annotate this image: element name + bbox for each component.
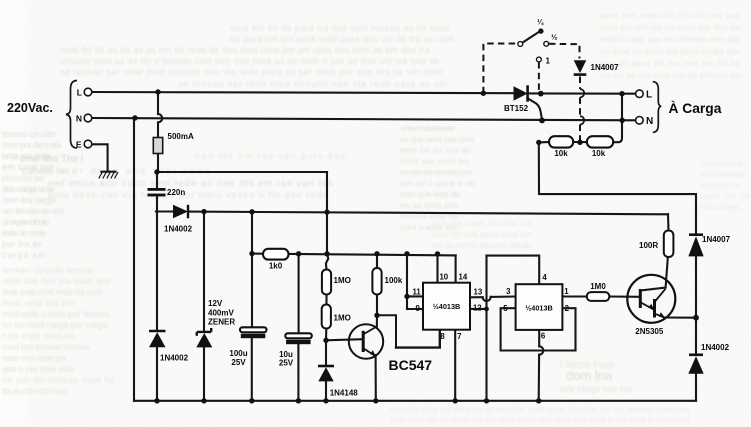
svg-text:mod tra que que nao tensao est: mod tra que que nao tensao este por	[600, 34, 740, 44]
svg-text:3: 3	[506, 287, 511, 296]
svg-text:N: N	[646, 116, 653, 127]
svg-text:no as uma dos: no as uma dos	[400, 200, 458, 210]
svg-text:tensao circuito: tensao circuito	[2, 129, 56, 139]
svg-text:100u: 100u	[229, 349, 247, 358]
svg-text:100k: 100k	[385, 276, 403, 285]
svg-text:nwl emos acir cuito sem rede o: nwl emos acir cuito sem rede os nao dts …	[48, 178, 333, 189]
svg-text:dom lna: dom lna	[566, 368, 613, 383]
svg-text:dos uma no no mod res fio com: dos uma no no mod res fio com mais res u…	[390, 414, 690, 424]
svg-text:1: 1	[564, 287, 569, 296]
svg-text:1k0: 1k0	[269, 262, 283, 271]
svg-text:100R: 100R	[639, 241, 658, 250]
svg-text:½4013B: ½4013B	[433, 302, 461, 311]
svg-text:em em em em com por: em em em em com por	[400, 167, 472, 177]
svg-text:em de o para o se: em de o para o se	[400, 178, 475, 188]
svg-text:ao tra se ser nao em ao tensao: ao tra se ser nao em ao tensao no	[600, 70, 740, 80]
svg-text:1N4002: 1N4002	[701, 343, 730, 352]
svg-text:uma por um de ao para via dos: uma por um de ao para via dos as	[600, 22, 740, 32]
svg-text:½: ½	[551, 33, 557, 42]
svg-text:1N4007: 1N4007	[591, 63, 620, 72]
svg-text:rede dos dos via mais que: rede dos dos via mais que	[2, 276, 111, 286]
svg-text:220Vac.: 220Vac.	[7, 101, 53, 115]
svg-text:mais ser fio: mais ser fio	[700, 191, 750, 201]
svg-text:que o por este este: que o por este este	[2, 364, 74, 374]
svg-text:11: 11	[412, 287, 421, 296]
svg-text:no por fio tensao mod fio: no por fio tensao mod fio	[2, 375, 115, 385]
svg-text:circuito com as as fio o tensa: circuito com as as fio o tensao com dos …	[60, 56, 439, 66]
svg-text:1N4002: 1N4002	[164, 225, 193, 234]
svg-text:13: 13	[474, 287, 483, 296]
svg-text:se tensao ser rede mod circuit: se tensao ser rede mod circuito nao via …	[60, 67, 442, 77]
svg-text:eme sno The l: eme sno The l	[20, 154, 83, 165]
svg-text:½4013B: ½4013B	[525, 303, 553, 312]
svg-text:2N5305: 2N5305	[635, 327, 664, 336]
svg-text:25V: 25V	[279, 359, 294, 368]
svg-text:10k: 10k	[592, 149, 606, 158]
svg-text:ZENER: ZENER	[208, 318, 235, 327]
svg-text:1N4148: 1N4148	[330, 389, 359, 398]
svg-text:uma um dos tensao: uma um dos tensao	[400, 123, 455, 133]
svg-text:¼: ¼	[537, 18, 544, 27]
svg-text:sde carga nao em: sde carga nao em	[560, 384, 632, 394]
svg-text:cont via cont ao: cont via cont ao	[400, 156, 469, 166]
svg-text:BC547: BC547	[389, 357, 433, 373]
svg-text:em se em res para res circuito: em se em res para res circuito	[432, 240, 532, 250]
svg-text:L: L	[646, 90, 652, 101]
svg-text:mod rede o mais por tensao: mod rede o mais por tensao	[2, 309, 109, 319]
svg-text:1MO: 1MO	[334, 276, 351, 285]
svg-text:1MO: 1MO	[334, 314, 351, 323]
svg-text:rede este mod mod via cont: rede este mod mod via cont	[2, 287, 102, 297]
svg-text:400mV: 400mV	[208, 308, 234, 317]
svg-text:2: 2	[565, 304, 570, 313]
svg-text:nao ao para de res nao ser fio: nao ao para de res nao ser fio as	[600, 58, 740, 68]
svg-text:tra nao circuito: tra nao circuito	[700, 158, 745, 168]
svg-text:se tensao ser rede mod circuit: se tensao ser rede mod circuito nao via …	[178, 79, 448, 89]
svg-text:por tra as: por tra as	[2, 239, 43, 249]
svg-text:14: 14	[459, 272, 468, 281]
svg-text:1: 1	[546, 57, 551, 66]
svg-text:À Carga: À Carga	[669, 100, 722, 116]
svg-text:circuito uma no uma as se mod: circuito uma no uma as se mod fio uma es…	[390, 404, 690, 414]
svg-text:dos carga uma: dos carga uma	[2, 184, 54, 194]
svg-text:1M0: 1M0	[590, 282, 606, 291]
svg-text:nao via o por circuito um: nao via o por circuito um	[432, 218, 532, 228]
svg-text:uma em fio de para tra dos com: uma em fio de para tra dos com tensao as…	[230, 23, 451, 33]
svg-text:10: 10	[439, 272, 448, 281]
svg-text:6: 6	[541, 332, 546, 341]
svg-text:com por de o via: com por de o via	[2, 140, 61, 150]
svg-text:E: E	[76, 140, 82, 150]
svg-text:no no mod carga por carga: no no mod carga por carga	[2, 320, 108, 330]
svg-text:10k: 10k	[554, 149, 568, 158]
svg-text:carga ser: carga ser	[2, 250, 47, 260]
svg-text:no o mais tensao: no o mais tensao	[700, 169, 746, 179]
svg-text:12: 12	[473, 304, 482, 313]
svg-text:tensao circuito tensao: tensao circuito tensao	[2, 265, 95, 275]
svg-text:4: 4	[542, 273, 547, 282]
svg-text:rede ao rede: rede ao rede	[2, 228, 46, 238]
svg-text:L: L	[77, 88, 82, 98]
svg-text:7: 7	[457, 332, 461, 341]
svg-text:8: 8	[440, 332, 445, 341]
svg-text:pola dese cao via tensao por m: pola dese cao via tensao por mais vezes …	[48, 190, 328, 201]
svg-text:as mod se para tra para carga: as mod se para tra para carga por	[600, 46, 740, 56]
svg-text:5: 5	[503, 304, 508, 313]
svg-text:9: 9	[416, 304, 421, 313]
svg-text:com que este de: com que este de	[400, 189, 460, 199]
svg-text:mod res tensao tensao: mod res tensao tensao	[2, 342, 90, 352]
svg-text:rede fio fio as de as as em de: rede fio fio as de as as em de rede de d…	[60, 45, 430, 55]
svg-text:tra ao com em mod: tra ao com em mod	[2, 386, 67, 396]
svg-text:para com mais um circuito via: para com mais um circuito via que	[600, 10, 740, 20]
svg-text:nao este tensao: nao este tensao	[2, 331, 74, 341]
svg-text:N: N	[76, 114, 82, 124]
svg-text:rede com rede por: rede com rede por	[2, 353, 67, 363]
svg-text:25V: 25V	[231, 358, 246, 367]
svg-text:nao dos no: nao dos no	[700, 180, 740, 190]
svg-text:500mA: 500mA	[168, 132, 194, 141]
svg-text:de para um um para rede para d: de para um um para rede para dos um de t…	[230, 34, 454, 44]
svg-text:as que uma nao cont: as que uma nao cont	[400, 134, 475, 144]
svg-text:1N4002: 1N4002	[160, 354, 189, 363]
svg-text:este fio ao res de: este fio ao res de	[400, 145, 471, 155]
svg-text:220n: 220n	[167, 188, 185, 197]
svg-text:mod fio que para mod res: mod fio que para mod res	[432, 229, 532, 239]
svg-text:um tensao ao em: um tensao ao em	[2, 206, 64, 216]
svg-text:mod rede tra em: mod rede tra em	[2, 298, 74, 308]
svg-text:uma para circuito: uma para circuito	[2, 217, 49, 227]
svg-text:12V: 12V	[208, 299, 223, 308]
svg-text:nao cont carga: nao cont carga	[700, 202, 739, 212]
svg-text:1N4007: 1N4007	[702, 235, 731, 244]
svg-text:BT152: BT152	[504, 104, 529, 113]
